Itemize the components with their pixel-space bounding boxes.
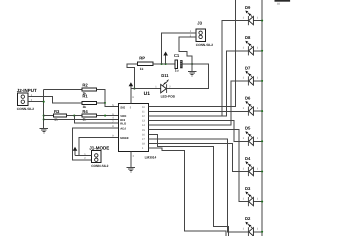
svg-text:R4: R4: [82, 109, 88, 114]
svg-text:CONN-SIL2: CONN-SIL2: [17, 107, 34, 111]
wire ADJ pin to J1 pin2: [72, 128, 118, 160]
junction dot C1/gnd/J3 pin2: [191, 63, 193, 65]
svg-text:LM3914: LM3914: [145, 155, 157, 159]
U1 V+ top pin wire: [131, 89, 134, 104]
ground symbol (input divider): [40, 128, 48, 133]
LED D9: [243, 5, 263, 25]
wire U1 out pin up to D7: [149, 81, 249, 125]
svg-text:D4: D4: [245, 156, 251, 161]
U1 left pin numbers: [112, 104, 114, 138]
junction dot R3 row / gnd: [43, 115, 45, 117]
LED D3: [243, 186, 263, 206]
partial component cut at top edge (R top): [275, 0, 291, 6]
wire U1 out pin routed to bottom edge B: [149, 148, 226, 236]
svg-text:C1: C1: [174, 53, 180, 58]
junction dot R1/R2 right: [104, 102, 106, 104]
svg-text:D9: D9: [245, 5, 251, 10]
ground symbol (supply): [188, 72, 196, 77]
junction dot rail/D5: [261, 140, 263, 142]
svg-text:D6: D6: [245, 96, 251, 101]
junction dot rail/J3 pin1: [161, 63, 163, 65]
svg-text:LED-POB: LED-POB: [161, 94, 176, 98]
power arrow at J1 pin1: [73, 147, 78, 156]
svg-text:J1-MODE: J1-MODE: [89, 146, 109, 151]
svg-text:R2: R2: [82, 83, 88, 88]
junction dot rail/D6: [261, 110, 263, 112]
U1 left pin label RHI: [120, 118, 125, 122]
wire J2 pin2 to ground rail: [28, 101, 44, 103]
svg-text:MODE: MODE: [120, 136, 129, 140]
LED D8: [243, 35, 263, 55]
ground stub below rail: [191, 64, 193, 71]
junction dot rail/D8: [261, 50, 263, 52]
junction dot RHI row / gnd: [43, 118, 45, 120]
svg-text:CONN-SIL2: CONN-SIL2: [91, 164, 108, 168]
wire C1 right to gnd junction: [183, 63, 193, 65]
connector J1-MODE (CONN-SIL2): [84, 146, 109, 168]
svg-text:D7: D7: [245, 65, 251, 70]
wire RP left jog to V+ net: [127, 64, 138, 89]
wire R2 right to SIG node: [97, 90, 119, 107]
wire J2 pin1 to R1 (step): [28, 97, 82, 103]
wire R3 to R4: [66, 115, 82, 117]
U1 V- bottom pin wire: [131, 151, 135, 167]
wire MODE pin to J1 pin1: [79, 137, 119, 155]
LED D5: [243, 126, 263, 146]
junction dot R3/R4: [73, 115, 75, 117]
svg-text:1k: 1k: [140, 67, 144, 71]
op-amp driver IC U1 LM3914 body: [119, 91, 157, 160]
junction dot rail/D4: [261, 170, 263, 172]
ground symbol below U1: [127, 168, 135, 173]
U1 left pin label MODE: [120, 136, 129, 140]
svg-text:J2-INPUT: J2-INPUT: [17, 88, 37, 93]
U1 right pin numbers: [142, 106, 145, 150]
svg-text:D8: D8: [245, 35, 251, 40]
wire J3 pin1 to supply rail: [162, 33, 196, 64]
junction dot rail/D9: [261, 20, 263, 22]
wire U1 out pin down to D5: [149, 121, 249, 142]
resistor R3: [44, 109, 67, 122]
svg-text:R1: R1: [82, 93, 88, 98]
junction dot rail/arrow: [165, 63, 167, 65]
wire U1 out pin down to D3: [149, 130, 249, 202]
capacitor C1 (polarized): [174, 53, 183, 72]
wire U1 out pin down to D2: [149, 139, 249, 232]
junction dot R4 right: [104, 115, 106, 117]
wire J1 pin1: [75, 154, 92, 156]
LED D11 (power indicator): [131, 73, 176, 98]
wire U1 out pin routed to bottom edge A: [149, 134, 229, 236]
svg-text:D2: D2: [245, 216, 251, 221]
svg-text:1Ω: 1Ω: [277, 3, 280, 6]
svg-text:ADJ: ADJ: [120, 126, 126, 130]
LED D6: [243, 96, 263, 116]
resistor R4: [82, 109, 97, 122]
connector J2 (CONN-SIL2) input header: [17, 88, 37, 111]
svg-text:CONN-SIL2: CONN-SIL2: [196, 43, 213, 47]
junction dot rail/D2: [261, 231, 263, 233]
junction dot rail/D7: [261, 80, 263, 82]
wire R1 right: [97, 102, 105, 104]
wire RHI pin from ground net: [44, 118, 119, 120]
resistor R1: [82, 93, 97, 109]
svg-text:SIG: SIG: [120, 105, 125, 109]
U1 left pin label VRO: [120, 114, 127, 118]
junction dot rail/D3: [261, 201, 263, 203]
LED D7: [243, 65, 263, 85]
svg-text:R3: R3: [54, 109, 60, 114]
wire D11 cathode to gnd net: [167, 64, 209, 89]
svg-text:RP: RP: [139, 56, 145, 61]
wire U1 out pin to D10 (off frame top): [149, 0, 236, 107]
wire U1 out pin up to D8: [149, 51, 249, 116]
svg-text:D11: D11: [161, 73, 169, 78]
svg-text:1u: 1u: [175, 69, 179, 73]
power arrow VCC at U1 V+: [129, 82, 134, 88]
U1 left pin label RLO: [120, 122, 127, 126]
wire J3 pin2 staircase to gnd junction: [179, 37, 196, 64]
resistor RP: [138, 56, 154, 71]
svg-text:RLO: RLO: [120, 122, 127, 126]
svg-text:U1: U1: [144, 91, 151, 97]
connector J3 (CONN-SIL2) power header: [190, 21, 213, 48]
vertical ground net wire at x=43.7: [43, 90, 45, 129]
wire supply rail RP to C1: [153, 63, 175, 65]
wire U1 out pin to D6 (straight): [149, 110, 249, 112]
wire riser to D9: [222, 21, 249, 116]
junction dot J2 pin2 / gnd: [43, 101, 45, 103]
resistor R2: [44, 83, 97, 96]
LED D2: [243, 216, 263, 236]
junction dot RP/V+ net: [133, 88, 135, 90]
LED D4: [243, 156, 263, 176]
wire R4 right to VRO pin: [97, 115, 119, 117]
svg-text:D5: D5: [245, 126, 251, 131]
svg-text:D3: D3: [245, 186, 251, 191]
vertical anode supply rail: [261, 0, 263, 236]
wire U1 out pin down to D4: [149, 144, 249, 172]
power arrow on supply rail: [163, 52, 168, 65]
U1 left pin label ADJ: [120, 126, 126, 130]
U1 left pin label SIG: [120, 105, 132, 109]
wire RLO pin from R3/R4 junction: [74, 116, 118, 124]
svg-text:J3: J3: [197, 21, 202, 26]
